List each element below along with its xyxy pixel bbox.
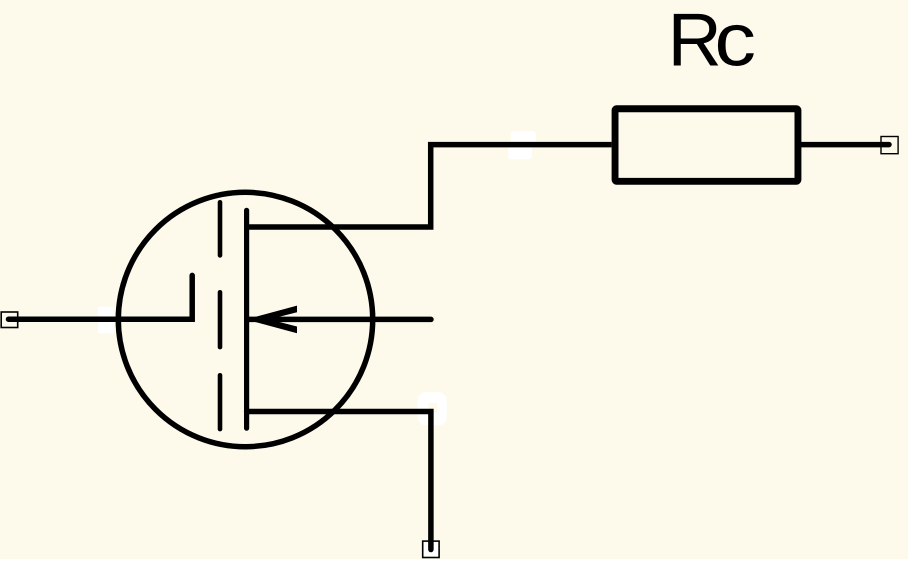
terminal pin E (bottom square) [423, 541, 439, 557]
wire: base/gate lead (left terminal to gate electrode) [9, 275, 193, 319]
transistor Q1 dashed line (dash 3) [218, 375, 223, 429]
emitter wire end dot inside terminal [428, 542, 434, 550]
transistor Q1 envelope circle [118, 192, 372, 446]
node E white-out label (behind emitter corner) [418, 392, 447, 425]
wire: resistor to right terminal [801, 142, 889, 148]
arrowhead pointing into body bar [246, 306, 297, 334]
wire: collector lead (transistor to resistor) [247, 145, 612, 227]
terminal pin B (left square) [1, 312, 18, 328]
transistor Q1 dashed line (dash 2) [218, 292, 223, 347]
transistor Q1 body bar [244, 210, 249, 428]
wire: emitter lead (transistor down to bottom terminal) [247, 412, 431, 550]
resistor Rc body [615, 109, 798, 182]
svg-text:c: c [714, 0, 756, 81]
node B white-out label (behind base wire) [98, 307, 114, 334]
node C white-out label (behind collector wire) [508, 131, 536, 159]
transistor Q1 gate/channel dashed line (dash 1) [218, 202, 223, 255]
wire: bulk/arrow lead (middle) [249, 317, 431, 323]
terminal pin C (right square) [881, 137, 898, 154]
